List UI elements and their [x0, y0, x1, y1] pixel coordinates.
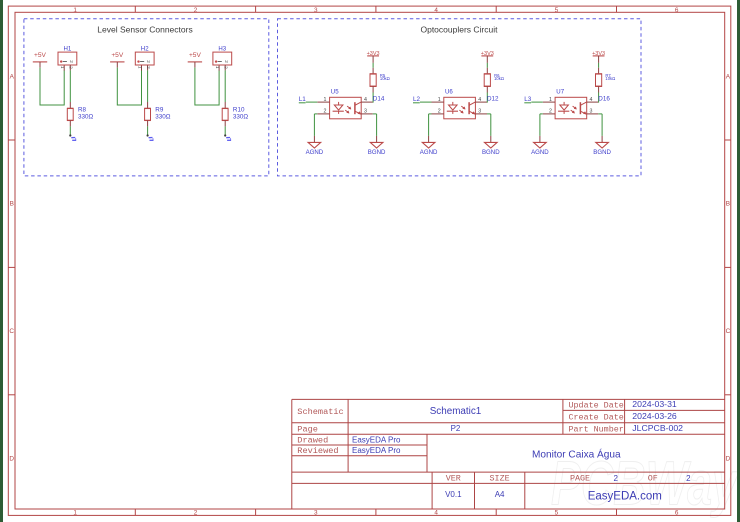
- svg-text:3: 3: [314, 7, 318, 14]
- svg-text:2: 2: [613, 474, 618, 483]
- svg-text:Part Number: Part Number: [569, 424, 624, 434]
- svg-text:10kΩ: 10kΩ: [494, 76, 504, 81]
- svg-text:4: 4: [434, 509, 438, 516]
- svg-text:EasyEDA Pro: EasyEDA Pro: [352, 446, 401, 455]
- svg-text:2024-03-31: 2024-03-31: [632, 399, 677, 409]
- svg-text:EasyEDA Pro: EasyEDA Pro: [352, 436, 401, 445]
- svg-text:2: 2: [224, 66, 229, 69]
- svg-text:AGND: AGND: [306, 149, 324, 156]
- svg-text:H2: H2: [141, 45, 149, 52]
- svg-text:L3: L3: [524, 96, 532, 103]
- svg-text:B: B: [726, 201, 730, 208]
- svg-text:1: 1: [438, 97, 441, 103]
- svg-text:4: 4: [478, 97, 481, 103]
- svg-text:P2: P2: [451, 424, 461, 433]
- svg-text:Optocouplers Circuit: Optocouplers Circuit: [420, 24, 498, 34]
- svg-text:2: 2: [438, 109, 441, 115]
- svg-text:U6: U6: [445, 89, 453, 96]
- svg-text:AGND: AGND: [531, 149, 549, 156]
- svg-text:VER: VER: [446, 474, 461, 484]
- svg-text:BGND: BGND: [368, 149, 386, 156]
- svg-text:Schematic1: Schematic1: [430, 406, 482, 417]
- svg-text:D: D: [9, 456, 14, 463]
- svg-text:AGND: AGND: [420, 149, 438, 156]
- svg-text:C: C: [9, 328, 14, 335]
- svg-text:A: A: [726, 73, 731, 80]
- svg-text:EasyEDA.com: EasyEDA.com: [588, 490, 662, 502]
- svg-text:2024-03-26: 2024-03-26: [632, 411, 677, 421]
- svg-text:L2: L2: [413, 96, 421, 103]
- svg-text:D: D: [726, 456, 731, 463]
- svg-text:BGND: BGND: [482, 149, 500, 156]
- svg-text:1: 1: [324, 97, 327, 103]
- svg-text:6: 6: [675, 509, 679, 516]
- svg-text:L1: L1: [299, 96, 307, 103]
- svg-text:1: 1: [73, 7, 77, 14]
- svg-text:330Ω: 330Ω: [155, 113, 171, 120]
- svg-text:5: 5: [555, 509, 559, 516]
- svg-text:+5V: +5V: [189, 52, 202, 59]
- svg-text:Create Date: Create Date: [569, 413, 624, 423]
- svg-text:2: 2: [194, 509, 198, 516]
- svg-text:Schematic: Schematic: [297, 407, 343, 417]
- svg-text:D14: D14: [373, 96, 385, 103]
- svg-text:1: 1: [215, 66, 220, 69]
- svg-text:330Ω: 330Ω: [233, 113, 249, 120]
- svg-text:2: 2: [194, 7, 198, 14]
- svg-text:+5V: +5V: [111, 52, 124, 59]
- svg-text:4: 4: [364, 97, 367, 103]
- svg-text:4: 4: [590, 97, 593, 103]
- svg-text:2: 2: [146, 60, 151, 63]
- svg-text:JLCPCB-002: JLCPCB-002: [632, 423, 683, 433]
- svg-text:B: B: [10, 201, 14, 208]
- svg-text:3: 3: [478, 109, 481, 115]
- svg-text:Page: Page: [297, 424, 318, 434]
- svg-text:2: 2: [146, 66, 151, 69]
- svg-text:5: 5: [555, 7, 559, 14]
- svg-text:3: 3: [364, 109, 367, 115]
- svg-text:D16: D16: [598, 96, 610, 103]
- svg-text:1: 1: [60, 66, 65, 69]
- svg-text:PAGE: PAGE: [570, 474, 590, 484]
- svg-text:4: 4: [434, 7, 438, 14]
- svg-text:6: 6: [675, 7, 679, 14]
- svg-text:10kΩ: 10kΩ: [380, 76, 390, 81]
- svg-text:V0.1: V0.1: [445, 490, 462, 499]
- svg-text:BGND: BGND: [593, 149, 611, 156]
- svg-text:1: 1: [549, 97, 552, 103]
- svg-text:2: 2: [686, 474, 691, 483]
- svg-text:+3V3: +3V3: [481, 51, 494, 57]
- svg-text:3: 3: [590, 109, 593, 115]
- svg-text:2: 2: [69, 66, 74, 69]
- svg-text:U7: U7: [556, 89, 564, 96]
- svg-text:2: 2: [324, 109, 327, 115]
- svg-text:U5: U5: [331, 89, 339, 96]
- svg-text:SIZE: SIZE: [490, 474, 510, 484]
- svg-text:+3V3: +3V3: [367, 51, 380, 57]
- svg-text:A: A: [10, 73, 15, 80]
- svg-text:A4: A4: [495, 490, 505, 499]
- svg-text:C: C: [726, 328, 731, 335]
- svg-text:1: 1: [73, 509, 77, 516]
- svg-text:2: 2: [224, 60, 229, 63]
- svg-text:+3V3: +3V3: [592, 51, 605, 57]
- svg-text:3: 3: [314, 509, 318, 516]
- svg-text:2: 2: [69, 60, 74, 63]
- svg-text:Update Date: Update Date: [569, 401, 624, 411]
- svg-text:Drawed: Drawed: [297, 436, 328, 446]
- svg-text:H1: H1: [64, 45, 72, 52]
- svg-text:H3: H3: [218, 45, 226, 52]
- svg-text:10kΩ: 10kΩ: [605, 76, 615, 81]
- svg-text:+5V: +5V: [34, 52, 47, 59]
- svg-text:330Ω: 330Ω: [78, 113, 94, 120]
- svg-text:Monitor Caixa Água: Monitor Caixa Água: [532, 447, 621, 460]
- svg-text:D12: D12: [487, 96, 499, 103]
- svg-text:1: 1: [137, 66, 142, 69]
- svg-text:Level Sensor Connectors: Level Sensor Connectors: [97, 24, 192, 34]
- svg-text:OF: OF: [648, 474, 658, 484]
- svg-text:2: 2: [549, 109, 552, 115]
- svg-text:Reviewed: Reviewed: [297, 446, 338, 456]
